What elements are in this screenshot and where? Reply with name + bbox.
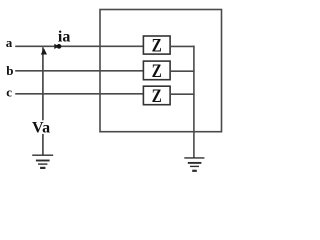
label a (6, 35, 13, 50)
svg-text:ia: ia (58, 28, 70, 45)
wire phase c (15, 93, 143, 95)
wire Va measurement line (lower segment) (42, 134, 44, 155)
label b (6, 63, 13, 78)
wire Z3 to neutral bus (170, 93, 195, 95)
impedance Z1 (143, 36, 170, 57)
impedance Z3 (143, 86, 170, 107)
svg-text:Z: Z (152, 86, 162, 107)
wire phase a (15, 45, 143, 47)
arrowhead up (Va reference at node a) (41, 48, 47, 54)
ground (left, under Va) (32, 155, 53, 168)
ground (right, neutral) (184, 158, 204, 171)
node dot on phase a (57, 44, 62, 49)
wire phase b (15, 70, 143, 72)
svg-text:Z: Z (152, 36, 162, 57)
impedance Z2 (143, 61, 170, 82)
enclosure box (three-phase load) (100, 10, 222, 132)
wire Z2 to neutral bus (170, 70, 195, 72)
current arrow ia on phase a (54, 44, 59, 49)
svg-text:b: b (6, 63, 13, 78)
wire Va measurement line (upper segment) (42, 47, 44, 120)
svg-text:Va: Va (32, 120, 50, 137)
label Va (32, 120, 50, 137)
wire Z1 to neutral bus (170, 45, 195, 47)
svg-text:a: a (6, 35, 13, 50)
svg-text:c: c (6, 85, 12, 100)
label c (6, 85, 12, 100)
label ia (58, 28, 70, 45)
wire neutral bus (vertical, exits box to ground) (193, 46, 195, 158)
svg-text:Z: Z (152, 61, 162, 82)
